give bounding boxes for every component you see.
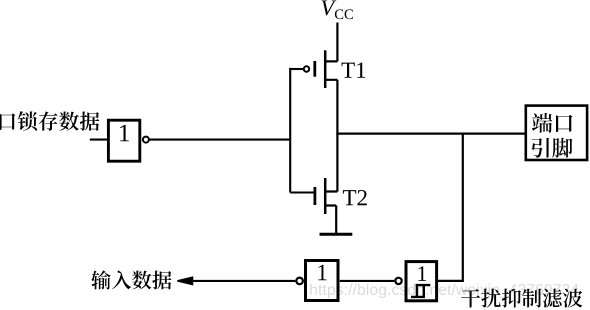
- wire U1 output to gate net: [149, 139, 291, 141]
- power net VCC label: [322, 1, 353, 20]
- transistor T1 (PMOS): [304, 50, 338, 88]
- wire junction drop to Schmitt input: [438, 134, 463, 282]
- label T2: [343, 190, 367, 205]
- wire gate net vertical: [289, 68, 291, 193]
- wire T2 source to ground: [335, 206, 337, 234]
- inverter U1: [108, 120, 148, 161]
- transistor T2 (NMOS): [315, 178, 338, 214]
- label 口锁存数据 (port latch data): [0, 111, 99, 131]
- port pin box 端口引脚: [526, 106, 587, 160]
- ground: [320, 233, 353, 236]
- wire output node row: [336, 133, 525, 135]
- wire T1 source to output node: [336, 80, 338, 134]
- label 输入数据 (input data): [91, 270, 171, 289]
- wire latch data to inverter U1: [90, 139, 108, 141]
- wire T1 gate: [289, 68, 303, 70]
- wire U2 output with arrow to input data: [177, 277, 295, 284]
- label T1: [342, 63, 366, 78]
- wire U3 output to U2 input: [340, 280, 394, 282]
- schmitt trigger gate U3: [395, 262, 436, 301]
- inverter U2: [296, 261, 338, 301]
- wire T2 drain: [336, 134, 338, 192]
- wire VCC to T1 drain: [336, 23, 338, 62]
- watermark: [310, 284, 578, 298]
- label 干扰抑制滤波 (interference suppression filter): [461, 289, 582, 308]
- wire T2 gate: [290, 191, 313, 193]
